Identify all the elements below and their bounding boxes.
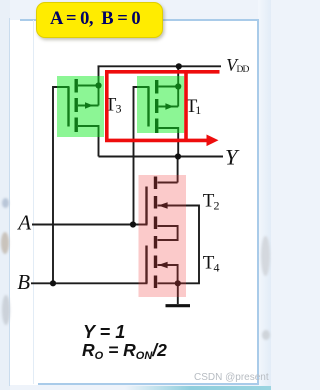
svg-text:DD: DD (237, 65, 250, 75)
svg-text:B: B (17, 270, 30, 294)
svg-text:2: 2 (214, 199, 220, 213)
svg-text:3: 3 (116, 102, 122, 116)
svg-text:1: 1 (195, 103, 201, 117)
svg-text:A: A (16, 210, 31, 234)
svg-text:4: 4 (214, 261, 220, 275)
svg-text:Y: Y (225, 145, 240, 170)
